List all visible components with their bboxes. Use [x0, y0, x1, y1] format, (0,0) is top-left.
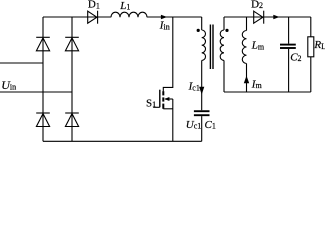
node dot primary polarity	[197, 29, 200, 32]
svg-text:L1: L1	[119, 0, 130, 12]
diode bridge bottom-right	[65, 113, 79, 127]
svg-text:C2: C2	[290, 52, 301, 64]
svg-text:Uc1: Uc1	[186, 119, 202, 131]
svg-text:D1: D1	[88, 0, 100, 11]
arrow MOSFET body (left)	[164, 97, 169, 101]
diode bridge bottom-left	[36, 113, 50, 127]
svg-text:Im: Im	[251, 79, 263, 91]
arrow Ic1 current (down)	[199, 87, 204, 95]
transformer secondary winding	[220, 17, 224, 92]
svg-text:C1: C1	[205, 119, 216, 131]
wire bottom rail	[43, 140, 202, 142]
capacitor C1	[194, 111, 210, 141]
capacitor C2	[280, 17, 296, 92]
svg-text:Ic1: Ic1	[188, 81, 200, 93]
wire MOSFET source to bottom rail	[172, 99, 174, 141]
transistor S1 MOSFET	[153, 90, 173, 109]
wire secondary bottom rail	[224, 91, 311, 93]
svg-text:Iin: Iin	[159, 20, 170, 32]
wire AC input line 1	[0, 62, 43, 64]
svg-text:RL: RL	[313, 39, 325, 51]
arrow Im current (up)	[244, 76, 249, 84]
arrow Iin current	[161, 15, 167, 20]
svg-text:Lm: Lm	[251, 40, 265, 52]
wire primary to C1	[201, 60, 203, 110]
wire top rail right (secondary to RL)	[224, 16, 311, 18]
inductor Lm	[242, 17, 246, 92]
svg-text:D2: D2	[251, 0, 263, 10]
svg-text:Uin: Uin	[1, 78, 16, 92]
wire bridge left leg	[42, 17, 44, 141]
diode bridge top-right	[65, 37, 79, 51]
wire MOSFET drain from top rail	[163, 17, 173, 91]
wire AC input line 2	[0, 91, 72, 93]
resistor RL	[308, 17, 314, 92]
wire top rail left (bridge to primary)	[43, 16, 111, 18]
svg-text:S1: S1	[146, 98, 156, 110]
transformer core	[210, 25, 213, 70]
arrow D2 output current	[273, 15, 279, 20]
inductor L1	[111, 12, 147, 17]
diode bridge top-left	[36, 37, 50, 51]
diode D1	[88, 11, 98, 24]
wire top rail L1 to primary	[147, 16, 202, 18]
node dot secondary polarity	[225, 29, 228, 32]
transformer primary winding	[202, 17, 206, 60]
wire bridge right leg	[71, 17, 73, 141]
diode D2	[254, 11, 264, 24]
